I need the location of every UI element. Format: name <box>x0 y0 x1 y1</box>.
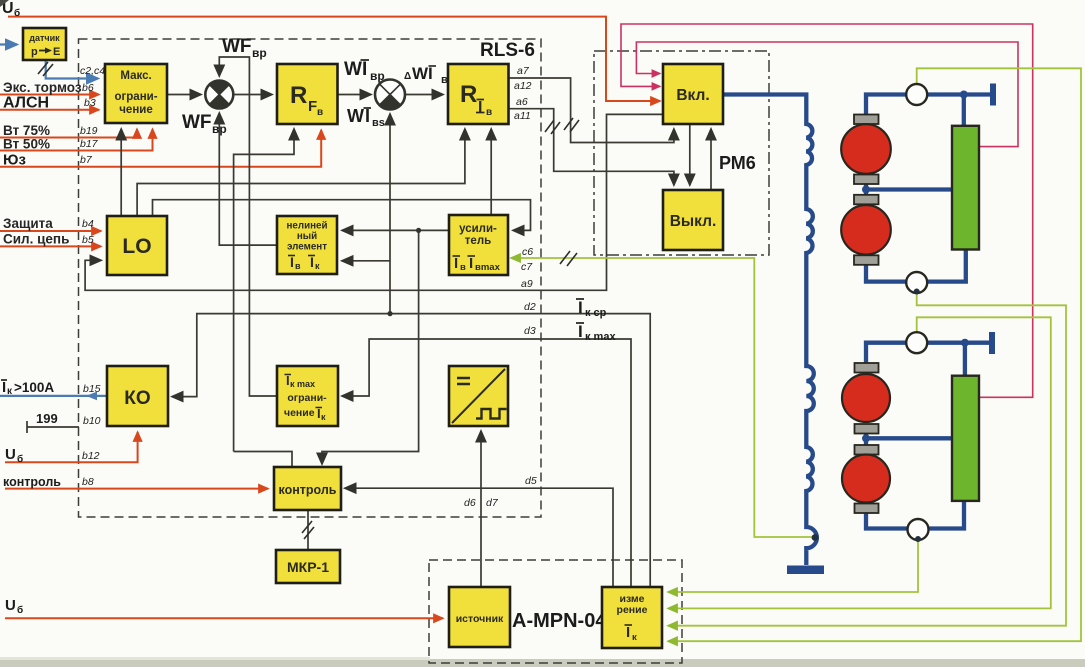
pin b5 <box>82 234 94 246</box>
wire b3 ALSN <box>0 109 99 111</box>
wire kontrol left top entry <box>234 452 292 467</box>
svg-text:d3: d3 <box>524 325 536 337</box>
svg-text:WF: WF <box>222 36 252 57</box>
svg-text:усили-: усили- <box>459 223 497 235</box>
svg-text:b6: b6 <box>82 82 94 94</box>
summator S1 <box>205 80 233 108</box>
svg-text:источник: источник <box>456 613 504 625</box>
svg-text:Вкл.: Вкл. <box>676 87 709 104</box>
wire Maks to summator1 <box>167 94 201 96</box>
svg-text:b3: b3 <box>84 97 96 109</box>
svg-text:W: W <box>344 59 362 80</box>
svg-text:U: U <box>5 597 16 614</box>
node junction dot amplifier-kontrol branch <box>416 228 421 233</box>
label delta WIv <box>404 64 448 86</box>
label Vt75 <box>3 123 50 138</box>
pin b17 <box>80 138 99 150</box>
pin d3 <box>524 325 536 337</box>
svg-text:Экс. тормоз: Экс. тормоз <box>3 80 82 95</box>
svg-text:АЛСН: АЛСН <box>3 95 49 112</box>
svg-text:a6: a6 <box>516 96 528 108</box>
svg-text:ный: ный <box>297 231 317 242</box>
label PM6 <box>719 153 756 173</box>
block Maks ogranichenie <box>105 64 167 123</box>
svg-text:вs: вs <box>372 117 385 129</box>
pin b10 <box>83 415 101 427</box>
svg-text:чение: чение <box>119 104 152 116</box>
svg-text:WF: WF <box>182 112 212 133</box>
wire kontrol to MKR-1 <box>307 510 309 550</box>
pin b6 <box>82 82 94 94</box>
svg-text:в: в <box>441 74 448 86</box>
pin b3 <box>84 97 96 109</box>
wire d3 Ik-max from izmerenie to limiter <box>342 339 631 588</box>
svg-text:Юз: Юз <box>3 152 26 169</box>
wire a9 feedback Vkl to LO <box>85 114 662 290</box>
ground <box>787 566 824 575</box>
svg-text:к ср: к ср <box>585 307 607 319</box>
hatch on sensor wire <box>38 62 53 76</box>
wire summator2 to RIv <box>405 94 443 96</box>
svg-text:199: 199 <box>36 411 58 426</box>
svg-text:б: б <box>17 453 23 465</box>
svg-text:б: б <box>17 604 23 616</box>
pin b8 <box>82 476 94 488</box>
svg-text:к: к <box>632 632 637 643</box>
wire branch to nonlinear element second input <box>342 260 390 262</box>
wire LO to amplifier right input lineQ <box>153 200 531 231</box>
label Ik max <box>576 322 616 343</box>
svg-text:Защита: Защита <box>3 216 53 231</box>
pin a9 <box>521 278 533 290</box>
wire green G3 circleT2 to izmerenie pin2 <box>668 317 1051 608</box>
pin b7 <box>80 154 93 166</box>
wire WFvr feedback from Ikmax-limiter to summator1 top <box>219 57 277 396</box>
svg-text:d5: d5 <box>525 475 537 487</box>
svg-text:вр: вр <box>370 69 385 83</box>
label ALSN <box>3 95 49 112</box>
label Sil tsep <box>3 232 69 247</box>
label Ik>100A <box>1 379 54 397</box>
node group2 mid junction <box>862 434 870 442</box>
wire b5 Sil.tsep <box>0 245 101 247</box>
svg-text:контроль: контроль <box>3 475 61 489</box>
wire summator1 to RFv <box>234 94 273 96</box>
block LO <box>107 216 167 275</box>
label Eks tormoz <box>3 80 82 95</box>
svg-text:вр: вр <box>252 46 267 60</box>
hatch on a6a11 wire <box>545 120 560 134</box>
label Ub bottom <box>5 597 23 616</box>
svg-text:I: I <box>578 322 583 341</box>
wire b7 Yuz to RFv <box>0 130 321 167</box>
terminal bar group1 <box>990 84 996 106</box>
pin d6 <box>464 497 476 509</box>
pin c7 <box>521 261 533 273</box>
label Vt50 <box>3 137 50 152</box>
svg-text:МКР-1: МКР-1 <box>287 559 329 575</box>
svg-text:E: E <box>53 46 60 58</box>
hatch on a7a12 wire <box>564 118 579 132</box>
block kontrol <box>274 467 341 510</box>
svg-text:I: I <box>362 59 367 80</box>
wire sensor c2,c4 output to Maks <box>46 60 98 79</box>
meter circle B1 <box>906 272 927 295</box>
block converter DC-pulse <box>449 366 508 426</box>
wire motor group2 top <box>866 343 989 364</box>
node Ub top label <box>2 0 20 19</box>
node shunt tap dot <box>812 534 819 541</box>
pin a12 <box>514 80 532 92</box>
label Yuz <box>3 152 26 169</box>
resistor R1 <box>952 126 979 250</box>
svg-text:W: W <box>347 106 364 126</box>
wire green G4 circleB2 to izmerenie pin1 <box>668 540 918 593</box>
svg-text:I: I <box>290 254 294 270</box>
wire b19 Vt75 <box>0 129 137 138</box>
wire amplifier top to RIv bottom <box>490 129 492 214</box>
PM6 dash-dot enclosure <box>594 51 769 255</box>
pin c2 c4 <box>80 65 105 77</box>
svg-text:нелиней: нелиней <box>286 221 327 232</box>
svg-text:d7: d7 <box>486 497 499 509</box>
svg-text:c2,c4: c2,c4 <box>80 65 105 77</box>
block Vkl <box>663 64 723 124</box>
block izmerenie <box>602 587 662 648</box>
wire a6 a11 output RIv to Vykl <box>509 109 674 185</box>
summator S2 <box>375 80 405 110</box>
svg-text:ограни-: ограни- <box>287 392 327 404</box>
motor M3 <box>842 363 890 434</box>
wire crimson resistor2 to Vkl <box>621 24 1033 397</box>
wire Vkl down to Vykl <box>689 125 691 185</box>
svg-text:I: I <box>478 99 482 116</box>
wire b17 Vt50 <box>0 129 153 151</box>
svg-text:вр: вр <box>212 122 227 136</box>
svg-text:d2: d2 <box>524 301 536 313</box>
pin b19 <box>80 125 98 137</box>
svg-text:элемент: элемент <box>287 242 327 253</box>
svg-text:a7: a7 <box>517 65 530 77</box>
pin a7 <box>517 65 530 77</box>
block Ikmax limiter <box>277 366 338 426</box>
svg-text:I: I <box>578 298 583 317</box>
pin a11 <box>514 110 531 122</box>
svg-text:b19: b19 <box>80 125 98 137</box>
wire amplifier output to nonlinear element <box>342 229 448 231</box>
pin b4 <box>82 218 94 230</box>
block RIv <box>448 64 509 124</box>
svg-text:I: I <box>626 624 630 641</box>
motor M2 <box>841 195 891 265</box>
wire green c6 c7 measure to amplifier <box>511 258 815 537</box>
node group1 top junction <box>960 91 968 99</box>
svg-text:в: в <box>295 261 301 271</box>
svg-text:вmax: вmax <box>475 262 501 273</box>
meter circle T1 <box>906 84 927 105</box>
wire RFv to summator2 <box>338 94 372 96</box>
svg-text:>100A: >100A <box>14 380 54 395</box>
svg-text:Вт 50%: Вт 50% <box>3 137 50 152</box>
resistor R2 <box>952 376 979 501</box>
svg-text:F: F <box>308 98 317 115</box>
pin b12 <box>82 450 100 462</box>
wire kontrol riser to RFv bottom input <box>234 129 294 452</box>
wire b8 kontrol input <box>5 488 268 490</box>
wire nonlinear element output to summator1 bottom <box>219 113 276 245</box>
label Zashchita <box>3 216 53 231</box>
wire blue main line from Vkl with smoothing reactors <box>723 95 817 566</box>
motor M4 <box>842 445 890 513</box>
svg-text:b7: b7 <box>80 154 93 166</box>
block amplifier <box>449 215 508 275</box>
svg-text:a9: a9 <box>521 278 533 290</box>
svg-text:c7: c7 <box>521 261 533 273</box>
wire b4 Zashchita <box>0 230 101 232</box>
wire Ub bottom to istochnik <box>5 617 443 619</box>
svg-text:к max: к max <box>585 331 616 343</box>
wire LO top to Maks bottom <box>120 129 122 215</box>
wire sensor input blue arrow <box>0 43 17 45</box>
label kontrol left <box>3 475 61 489</box>
svg-text:I: I <box>469 255 473 272</box>
meter circle T2 <box>906 332 927 353</box>
node junction dot d2 WIvs <box>387 311 392 316</box>
block MKR-1 <box>276 550 340 583</box>
wire LO to RIv bottom input lineP <box>137 129 465 215</box>
RLS-6 dashed enclosure <box>79 39 542 517</box>
svg-text:рение: рение <box>617 604 648 616</box>
svg-text:R: R <box>460 81 477 108</box>
label Ub left mid <box>5 446 23 465</box>
svg-text:Сил. цепь: Сил. цепь <box>3 232 69 247</box>
svg-text:b15: b15 <box>83 383 101 395</box>
wire motor group1 bottom <box>866 248 966 282</box>
pin d5 <box>525 475 537 487</box>
svg-text:b17: b17 <box>80 138 99 150</box>
hatch on MKR wire <box>302 521 314 539</box>
label A-MPN-04 <box>512 610 607 632</box>
svg-text:A-MPN-04: A-MPN-04 <box>512 610 607 632</box>
svg-text:b4: b4 <box>82 218 94 230</box>
label 199 <box>36 411 58 426</box>
block KO <box>107 366 168 426</box>
hatch on green wire <box>560 251 577 266</box>
scan artifact corner <box>0 0 9 7</box>
svg-text:I: I <box>365 106 370 126</box>
wire motor group1 middle link <box>866 182 953 197</box>
wire green G1 circleT1 to izmerenie pin4 <box>668 68 1081 641</box>
scan artifact bottom strip <box>0 657 1085 667</box>
svg-text:датчик: датчик <box>29 33 60 43</box>
svg-text:Δ: Δ <box>404 71 411 82</box>
svg-text:чение: чение <box>284 407 315 419</box>
svg-text:I: I <box>454 255 458 272</box>
wire b6 Eks.tormoz <box>0 94 99 96</box>
wire kontrol right top entry from amplifier line <box>322 230 419 464</box>
wire pin199 b10 stub <box>27 421 79 433</box>
svg-text:b10: b10 <box>83 415 101 427</box>
wire b12 Ub to KO <box>5 432 138 462</box>
pin d2 <box>524 301 536 313</box>
wire a7 a12 output RIv to Vkl <box>509 78 674 143</box>
svg-text:p: p <box>31 46 38 58</box>
svg-text:c6: c6 <box>522 246 533 258</box>
block RFv <box>277 64 338 124</box>
svg-text:в: в <box>317 107 323 118</box>
label WIvr <box>344 59 385 83</box>
svg-text:b5: b5 <box>82 234 94 246</box>
svg-text:b12: b12 <box>82 450 100 462</box>
svg-text:b8: b8 <box>82 476 94 488</box>
A-MPN-04 dashed enclosure <box>429 560 682 663</box>
block sensor p-E <box>23 28 66 60</box>
wire Ik>100A output from KO <box>0 392 107 401</box>
svg-text:I: I <box>310 254 314 270</box>
wire d5 from izmerenie to kontrol <box>345 488 613 588</box>
wire group2 resistor riser <box>963 343 967 377</box>
pin a6 <box>516 96 528 108</box>
node group2 top junction <box>961 339 969 347</box>
pin c6 <box>522 246 533 258</box>
svg-text:в: в <box>486 107 492 118</box>
svg-text:a11: a11 <box>514 110 531 122</box>
wire d6 d7 istochnik to converter <box>480 431 482 586</box>
wire green G2 circleB1 to izmerenie pin3 <box>668 293 1066 626</box>
label WFvr top <box>222 36 267 60</box>
motor M1 <box>841 115 891 185</box>
block nonlinear element <box>277 216 337 274</box>
label WFvr lower <box>182 112 227 136</box>
label RLS-6 <box>480 40 535 61</box>
node group1 mid junction <box>862 186 870 194</box>
wire d2 Ik-sr from izmerenie to KO <box>172 314 650 588</box>
svg-text:Макс.: Макс. <box>120 70 151 82</box>
svg-text:б: б <box>14 7 20 19</box>
wire Ub top orange feed to Vkl <box>8 17 660 101</box>
label WIvs <box>347 106 385 129</box>
meter circle B2 <box>908 519 929 542</box>
wire motor group2 middle link <box>866 431 953 447</box>
svg-text:к: к <box>315 261 320 271</box>
svg-text:d6: d6 <box>464 497 476 509</box>
svg-text:I: I <box>2 379 6 396</box>
svg-text:R: R <box>290 82 307 109</box>
svg-text:контроль: контроль <box>279 483 337 497</box>
block Vykl <box>663 190 723 250</box>
terminal bar group2 <box>989 332 995 354</box>
pin d7 <box>486 497 499 509</box>
pin b15 <box>83 383 101 395</box>
svg-text:U: U <box>5 446 16 463</box>
svg-text:к: к <box>321 412 326 422</box>
svg-text:LO: LO <box>122 235 151 258</box>
svg-text:a12: a12 <box>514 80 532 92</box>
svg-text:Выкл.: Выкл. <box>670 213 717 230</box>
svg-text:к max: к max <box>290 379 315 389</box>
svg-text:RLS-6: RLS-6 <box>480 40 535 61</box>
svg-text:в: в <box>460 262 466 273</box>
wire WIvs d2-branch up to summator2 bottom <box>389 114 391 314</box>
wire Vykl up to Vkl <box>710 129 712 189</box>
svg-text:ограни-: ограни- <box>114 91 157 103</box>
wire crimson resistor1 to Vkl <box>636 42 1018 147</box>
wire group1 resistor riser <box>962 95 966 128</box>
wire motor group1 top <box>866 95 990 117</box>
svg-text:тель: тель <box>465 235 491 247</box>
wire motor group2 bottom <box>866 499 964 529</box>
label Ik sr <box>576 298 607 319</box>
svg-text:РМ6: РМ6 <box>719 153 756 173</box>
block istochnik <box>449 587 510 647</box>
svg-text:КО: КО <box>124 388 150 409</box>
